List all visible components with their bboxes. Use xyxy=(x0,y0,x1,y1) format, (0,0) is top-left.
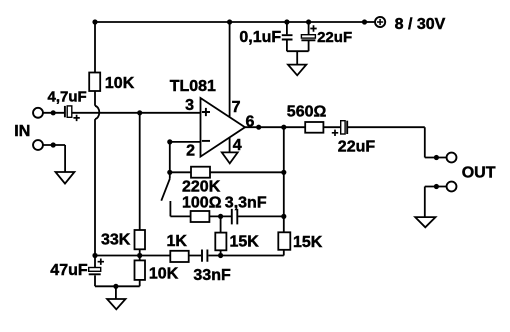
svg-text:2: 2 xyxy=(186,143,195,160)
svg-text:15K: 15K xyxy=(230,233,260,250)
svg-text:47uF: 47uF xyxy=(50,262,88,279)
svg-text:8 / 30V: 8 / 30V xyxy=(395,16,446,33)
svg-text:OUT: OUT xyxy=(462,165,496,182)
svg-text:33K: 33K xyxy=(101,232,131,249)
svg-text:7: 7 xyxy=(232,99,241,116)
svg-text:6: 6 xyxy=(246,114,255,131)
svg-text:0,1uF: 0,1uF xyxy=(239,29,281,46)
svg-text:560Ω: 560Ω xyxy=(287,104,327,121)
svg-text:220K: 220K xyxy=(182,179,221,196)
svg-text:3,3nF: 3,3nF xyxy=(225,195,267,212)
svg-text:22uF: 22uF xyxy=(317,29,352,46)
svg-text:10K: 10K xyxy=(149,266,179,283)
svg-text:1K: 1K xyxy=(167,233,188,250)
svg-text:15K: 15K xyxy=(293,234,323,251)
svg-text:3: 3 xyxy=(185,97,194,114)
svg-text:TL081: TL081 xyxy=(170,78,216,95)
svg-text:4,7uF: 4,7uF xyxy=(48,89,87,106)
svg-text:4: 4 xyxy=(233,137,242,154)
svg-text:10K: 10K xyxy=(105,75,135,92)
svg-text:22uF: 22uF xyxy=(338,139,376,156)
svg-text:100Ω: 100Ω xyxy=(182,195,222,212)
svg-text:33nF: 33nF xyxy=(193,267,231,284)
svg-text:IN: IN xyxy=(14,123,30,140)
